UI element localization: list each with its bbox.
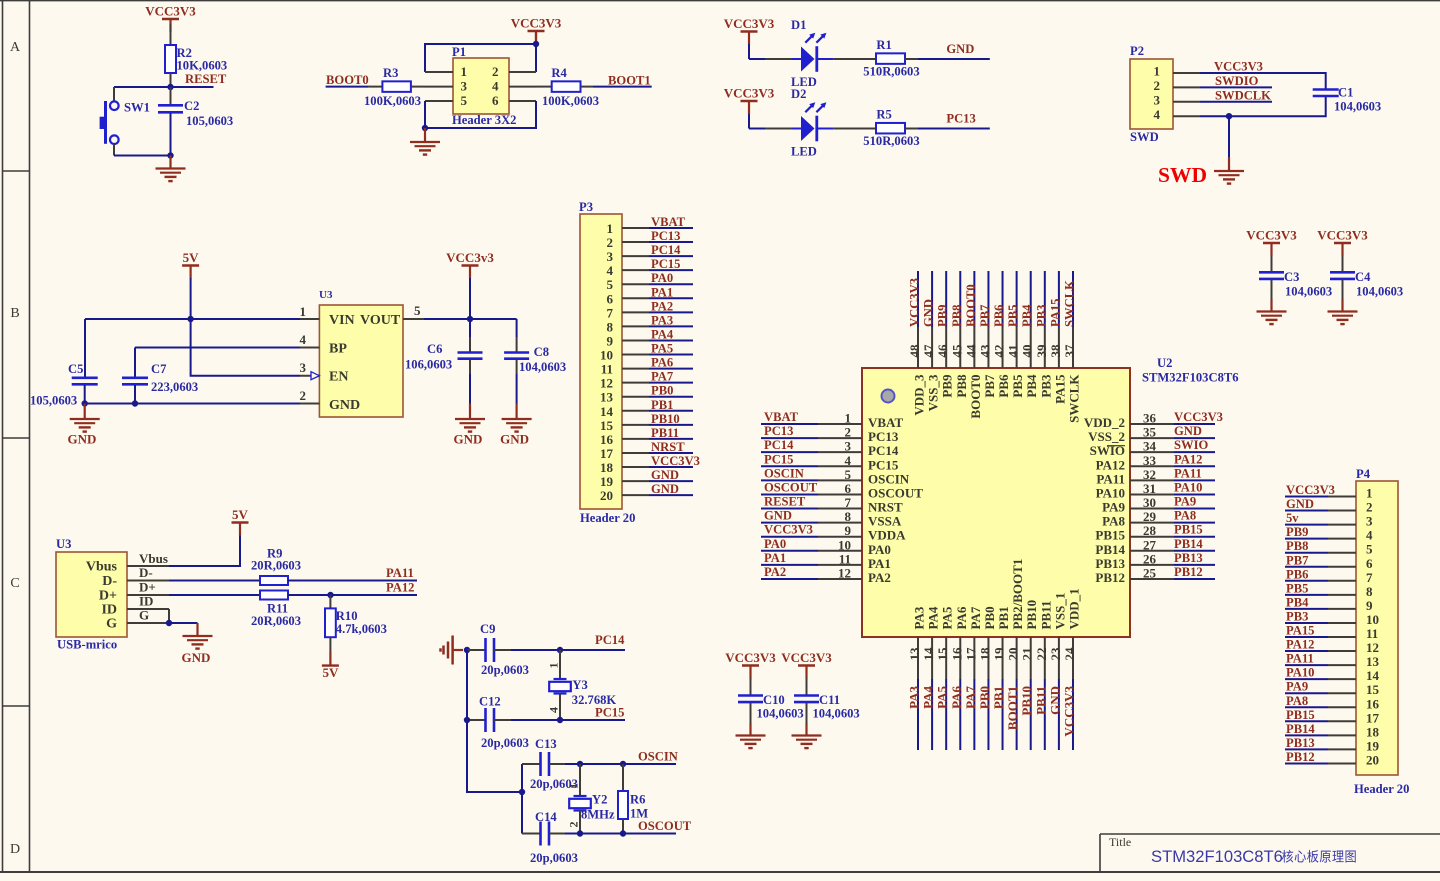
svg-text:PC13: PC13 xyxy=(946,112,975,126)
svg-text:GND: GND xyxy=(454,432,483,447)
svg-text:C3: C3 xyxy=(1284,270,1299,284)
resistor R10 xyxy=(325,595,387,637)
svg-text:20R,0603: 20R,0603 xyxy=(251,559,301,573)
svg-text:P1: P1 xyxy=(452,45,466,59)
wire P2 pin4 / C1 bottom / ground xyxy=(1200,97,1326,117)
svg-text:34: 34 xyxy=(1143,439,1157,454)
svg-text:106,0603: 106,0603 xyxy=(405,358,452,372)
svg-text:PB6: PB6 xyxy=(992,305,1006,327)
wire C13 to OSCIN xyxy=(565,763,580,765)
svg-text:C2: C2 xyxy=(184,99,199,113)
svg-text:18: 18 xyxy=(600,460,614,475)
ground (C8) xyxy=(500,404,531,447)
svg-text:OSCIN: OSCIN xyxy=(638,750,678,764)
wire VCC to P1 pins 1,2 xyxy=(425,44,536,72)
svg-text:PB9: PB9 xyxy=(1286,525,1308,539)
svg-text:48: 48 xyxy=(907,344,922,358)
svg-text:15: 15 xyxy=(1366,682,1380,697)
node junction C5/ground rail xyxy=(82,400,88,406)
svg-text:5: 5 xyxy=(414,303,421,318)
svg-text:104,0603: 104,0603 xyxy=(519,360,566,374)
svg-text:PA7: PA7 xyxy=(963,686,978,709)
node junction R6 bottom xyxy=(620,830,626,836)
resistor R5 xyxy=(863,108,919,148)
U2 pin 36 (VDD_2) wire / net VCC3V3 xyxy=(1084,410,1223,430)
svg-text:VCC3V3: VCC3V3 xyxy=(1246,228,1297,243)
wire D2 to R5 xyxy=(817,128,834,130)
U2 pin 13 (PA3) wire / net PA3 xyxy=(907,606,927,750)
wire PC15 xyxy=(560,719,625,721)
svg-text:8: 8 xyxy=(845,509,852,524)
svg-text:VSS_2: VSS_2 xyxy=(1088,429,1125,444)
svg-text:43: 43 xyxy=(977,344,992,358)
svg-text:PA3: PA3 xyxy=(907,686,922,709)
U2 pin 15 (PA5) wire / net PA5 xyxy=(935,606,955,750)
svg-text:Header 3X2: Header 3X2 xyxy=(452,113,516,127)
svg-text:BOOT0: BOOT0 xyxy=(964,284,978,327)
P4 pin 8 wire / net PB5 xyxy=(1285,581,1356,595)
U2 pin 38 (PA15) wire / net PA15 xyxy=(1048,271,1068,404)
P3 pin 6 wire / net PA1 xyxy=(622,285,693,299)
P4 pin 12 wire / net PA12 xyxy=(1285,638,1356,652)
U3 pin stubs and numbers xyxy=(300,303,425,404)
wire C12 to PC15 xyxy=(511,719,560,721)
svg-text:PA10: PA10 xyxy=(1096,485,1125,500)
svg-text:510R,0603: 510R,0603 xyxy=(863,134,919,148)
svg-text:8MHz: 8MHz xyxy=(581,808,615,822)
svg-text:PB5: PB5 xyxy=(1286,581,1308,595)
P3 pin 17 wire / net NRST xyxy=(622,440,693,454)
svg-text:SWD: SWD xyxy=(1130,130,1159,144)
node junction R6 top xyxy=(620,761,626,767)
svg-text:OSCOUT: OSCOUT xyxy=(868,485,923,500)
svg-text:PB15: PB15 xyxy=(1095,528,1125,543)
U2 pin 48 (VDD_3) wire / net VCC3V3 xyxy=(907,271,927,416)
svg-text:PB1: PB1 xyxy=(996,606,1011,629)
svg-text:VCC3V3: VCC3V3 xyxy=(1286,483,1335,497)
svg-text:VCC3V3: VCC3V3 xyxy=(145,4,196,19)
svg-text:4: 4 xyxy=(492,79,499,94)
svg-text:10: 10 xyxy=(600,348,613,363)
P3 pin 14 wire / net PB1 xyxy=(622,398,693,412)
svg-text:PB8: PB8 xyxy=(1286,539,1308,553)
wire to ground (USB) xyxy=(169,622,198,624)
svg-text:PB11: PB11 xyxy=(651,426,679,440)
svg-text:PB3: PB3 xyxy=(1034,305,1048,327)
svg-text:LED: LED xyxy=(791,145,817,159)
svg-text:39: 39 xyxy=(1034,344,1049,358)
svg-text:GND: GND xyxy=(946,42,974,56)
svg-text:Header 20: Header 20 xyxy=(1354,782,1409,796)
svg-text:32: 32 xyxy=(1143,467,1156,482)
U2 pin 8 (VSSA) wire / net GND xyxy=(761,509,902,529)
U2 pin 31 (PA10) wire / net PA10 xyxy=(1096,480,1215,500)
P3 pin 8 wire / net PA3 xyxy=(622,313,693,327)
wire R1 to GND net xyxy=(905,58,919,60)
wire C9 to PC14 xyxy=(511,649,560,651)
svg-text:R4: R4 xyxy=(551,66,567,80)
svg-text:VSS_3: VSS_3 xyxy=(926,374,941,411)
svg-text:3: 3 xyxy=(1366,514,1373,529)
capacitor C9 xyxy=(467,622,529,677)
P3 pin 11 wire / net PA6 xyxy=(622,356,693,370)
U2 pin 29 (PA8) wire / net PA8 xyxy=(1102,509,1215,529)
svg-text:PB0: PB0 xyxy=(977,686,992,709)
svg-text:5V: 5V xyxy=(232,507,249,522)
svg-text:20: 20 xyxy=(600,488,613,503)
U2 pin 5 (OSCIN) wire / net OSCIN xyxy=(761,466,910,486)
svg-text:28: 28 xyxy=(1143,523,1157,538)
svg-text:C13: C13 xyxy=(535,737,557,751)
svg-text:P4: P4 xyxy=(1356,467,1371,481)
svg-text:D-: D- xyxy=(102,574,117,589)
svg-text:PA7: PA7 xyxy=(651,370,673,384)
svg-text:PB7: PB7 xyxy=(1286,553,1308,567)
svg-text:VBAT: VBAT xyxy=(651,215,686,229)
wire D- to R9 xyxy=(169,580,260,582)
svg-text:PA2: PA2 xyxy=(868,570,891,585)
svg-text:PB10: PB10 xyxy=(1024,600,1039,630)
P4 pin 11 wire / net PA15 xyxy=(1285,624,1356,638)
P3 pin 12 wire / net PA7 xyxy=(622,370,693,384)
svg-text:24: 24 xyxy=(1062,647,1077,661)
svg-text:PB6: PB6 xyxy=(996,374,1011,398)
svg-text:13: 13 xyxy=(600,390,614,405)
capacitor C6 xyxy=(405,319,483,404)
P4 pin 20 wire / net PB12 xyxy=(1285,750,1356,764)
svg-text:9: 9 xyxy=(607,333,614,348)
svg-text:PA3: PA3 xyxy=(912,606,927,629)
svg-text:OSCOUT: OSCOUT xyxy=(638,819,692,833)
svg-text:PA6: PA6 xyxy=(949,686,964,709)
svg-text:STM32F103C8T6: STM32F103C8T6 xyxy=(1151,847,1283,866)
svg-text:104,0603: 104,0603 xyxy=(1334,100,1381,114)
capacitor C2 xyxy=(158,87,233,156)
svg-text:PB2/BOOT1: PB2/BOOT1 xyxy=(1010,559,1025,630)
wire D1 to R1 xyxy=(817,58,834,60)
wire VOUT rail xyxy=(424,318,517,320)
crystal Y2 (8MHz) xyxy=(567,764,615,834)
svg-text:3: 3 xyxy=(300,360,307,375)
svg-text:D+: D+ xyxy=(99,589,117,604)
svg-text:VBAT: VBAT xyxy=(764,410,799,424)
U2 pin 45 (PB8) wire / net PB8 xyxy=(949,271,969,398)
svg-text:6: 6 xyxy=(607,291,614,306)
svg-text:47: 47 xyxy=(921,344,936,358)
ground (reset) xyxy=(156,156,186,182)
svg-text:13: 13 xyxy=(1366,654,1380,669)
P3 pin 18 wire / net VCC3V3 xyxy=(622,454,700,468)
svg-text:U3: U3 xyxy=(319,289,333,301)
P3 pin 2 wire / net PC13 xyxy=(622,229,693,243)
P3 pin 3 wire / net PC14 xyxy=(622,243,693,257)
svg-text:D-: D- xyxy=(139,565,153,580)
earth ground (crystal) xyxy=(441,636,464,665)
capacitor C13 xyxy=(522,737,578,791)
P3 pin 1 wire / net VBAT xyxy=(622,215,693,229)
wire BP xyxy=(135,347,300,349)
ground (C3) xyxy=(1257,312,1287,325)
svg-text:G: G xyxy=(106,617,117,632)
P4 pin 4 wire / net PB9 xyxy=(1285,525,1356,539)
P4 pin 2 wire / net GND xyxy=(1285,497,1356,511)
svg-text:SWDIO: SWDIO xyxy=(1215,74,1259,88)
svg-text:GND: GND xyxy=(1286,497,1314,511)
svg-text:P3: P3 xyxy=(579,200,593,214)
svg-text:11: 11 xyxy=(601,362,613,377)
U2 pin 43 (PB7) wire / net PB7 xyxy=(977,271,997,398)
svg-text:PC14: PC14 xyxy=(764,438,794,452)
svg-text:PC15: PC15 xyxy=(595,705,624,719)
resistor R11 xyxy=(251,591,301,629)
svg-text:19: 19 xyxy=(600,474,614,489)
svg-text:GND: GND xyxy=(182,650,211,665)
svg-text:27: 27 xyxy=(1143,537,1157,552)
svg-text:23: 23 xyxy=(1048,647,1063,661)
svg-text:Vbus: Vbus xyxy=(86,560,118,575)
svg-text:45: 45 xyxy=(949,344,964,358)
svg-text:PB9: PB9 xyxy=(940,374,955,398)
U2 pin 14 (PA4) wire / net PA4 xyxy=(921,606,941,750)
svg-text:PC14: PC14 xyxy=(868,443,899,458)
svg-text:6: 6 xyxy=(492,93,499,108)
U2 pin 17 (PA7) wire / net PA7 xyxy=(963,606,983,750)
svg-text:7: 7 xyxy=(607,305,614,320)
U2 pin 42 (PB6) wire / net PB6 xyxy=(992,271,1012,398)
svg-text:PA2: PA2 xyxy=(651,299,673,313)
U2 pin 26 (PB13) wire / net PB13 xyxy=(1095,551,1215,571)
svg-text:VCC3V3: VCC3V3 xyxy=(651,454,700,468)
svg-text:18: 18 xyxy=(977,647,992,661)
svg-text:5: 5 xyxy=(607,277,614,292)
svg-text:PA9: PA9 xyxy=(1174,495,1196,509)
svg-text:223,0603: 223,0603 xyxy=(151,380,198,394)
svg-text:19: 19 xyxy=(992,647,1007,661)
svg-text:EN: EN xyxy=(329,370,348,385)
power VCC3V3 (C10) xyxy=(725,650,776,695)
wire R4 to P1 pin 4 xyxy=(536,86,552,88)
P3 pin 7 wire / net PA2 xyxy=(622,299,693,313)
svg-text:PA0: PA0 xyxy=(764,537,786,551)
svg-text:D+: D+ xyxy=(139,580,156,595)
svg-text:D1: D1 xyxy=(791,18,806,32)
capacitor C4 xyxy=(1330,270,1403,312)
svg-text:104,0603: 104,0603 xyxy=(1356,285,1403,299)
svg-text:U3: U3 xyxy=(56,537,71,551)
capacitor C10 xyxy=(738,693,804,736)
wire switch bottom to ground rail xyxy=(113,144,115,156)
svg-text:PC14: PC14 xyxy=(651,243,681,257)
svg-text:Header 20: Header 20 xyxy=(580,511,635,525)
svg-text:2: 2 xyxy=(492,64,499,79)
svg-text:PB4: PB4 xyxy=(1020,304,1034,327)
svg-text:PB1: PB1 xyxy=(651,398,673,412)
U2 pin 34 (SWIO) wire / net SWIO xyxy=(1090,438,1215,458)
svg-text:12: 12 xyxy=(1366,640,1379,655)
svg-text:20p,0603: 20p,0603 xyxy=(481,663,529,677)
power VCC3V3 (reset pull-up) xyxy=(145,4,196,46)
svg-text:104,0603: 104,0603 xyxy=(1285,285,1332,299)
wire RESET net xyxy=(114,86,214,88)
wire VCC to D2 xyxy=(749,128,765,130)
node junction VOUT xyxy=(467,316,473,322)
svg-text:D: D xyxy=(10,842,20,857)
svg-text:GND: GND xyxy=(764,509,792,523)
U2 pin 7 (NRST) wire / net RESET xyxy=(761,495,903,515)
LED D2 xyxy=(791,87,826,159)
svg-text:11: 11 xyxy=(1366,626,1378,641)
wire C14 to OSCOUT xyxy=(565,833,580,835)
svg-text:USB-mrico: USB-mrico xyxy=(57,638,117,652)
svg-text:PA8: PA8 xyxy=(1102,514,1125,529)
svg-text:25: 25 xyxy=(1143,565,1157,580)
svg-text:C6: C6 xyxy=(427,342,442,356)
svg-text:VSS_1: VSS_1 xyxy=(1052,593,1067,630)
svg-text:41: 41 xyxy=(1006,345,1021,358)
node junction P1 ground xyxy=(422,125,428,131)
svg-text:5V: 5V xyxy=(183,250,200,265)
svg-text:3: 3 xyxy=(1154,92,1161,107)
svg-text:510R,0603: 510R,0603 xyxy=(863,64,919,78)
P4 pin 17 wire / net PB15 xyxy=(1285,708,1356,722)
svg-text:2: 2 xyxy=(607,235,614,250)
U2 pin 11 (PA1) wire / net PA1 xyxy=(761,551,891,571)
svg-text:PB4: PB4 xyxy=(1024,374,1039,398)
wire down to ground (SWD) xyxy=(1228,116,1230,157)
wire Y2 bottom to R6 bottom xyxy=(580,833,623,835)
svg-text:36: 36 xyxy=(1143,411,1157,426)
svg-text:15: 15 xyxy=(600,418,614,433)
svg-text:13: 13 xyxy=(907,647,922,661)
svg-text:37: 37 xyxy=(1062,344,1077,358)
P1 pin stubs xyxy=(425,72,536,101)
regulator U3 (LDO) xyxy=(319,289,403,417)
svg-text:GND: GND xyxy=(500,432,529,447)
svg-text:4: 4 xyxy=(547,707,561,713)
svg-text:PA9: PA9 xyxy=(1286,680,1308,694)
svg-text:12: 12 xyxy=(838,565,851,580)
svg-text:PC15: PC15 xyxy=(868,457,899,472)
ground (boot header) xyxy=(410,128,440,155)
svg-text:PA10: PA10 xyxy=(1286,666,1314,680)
U2 pin 12 (PA2) wire / net PA2 xyxy=(761,565,891,585)
svg-text:PB1: PB1 xyxy=(991,686,1006,709)
U2 pin 46 (PB9) wire / net PB9 xyxy=(935,271,955,398)
ground (C6) xyxy=(454,404,485,447)
svg-text:OSCIN: OSCIN xyxy=(868,471,910,486)
svg-text:20p,0603: 20p,0603 xyxy=(530,851,578,865)
svg-text:D2: D2 xyxy=(791,87,806,101)
svg-text:100K,0603: 100K,0603 xyxy=(542,94,599,108)
svg-text:OSCIN: OSCIN xyxy=(764,466,804,480)
capacitor C11 xyxy=(794,693,860,736)
svg-text:PA5: PA5 xyxy=(651,342,673,356)
resistor R4 xyxy=(542,66,599,108)
svg-text:RESET: RESET xyxy=(185,72,227,86)
wire R9 to PA11 xyxy=(288,580,417,582)
svg-text:PB3: PB3 xyxy=(1286,609,1308,623)
svg-text:1: 1 xyxy=(1154,64,1161,79)
svg-text:C: C xyxy=(10,576,19,591)
P3 pin 16 wire / net PB11 xyxy=(622,426,693,440)
svg-text:VCC3V3: VCC3V3 xyxy=(724,16,775,31)
svg-text:SWD: SWD xyxy=(1158,163,1207,187)
power VCC3V3 (C11) xyxy=(781,650,832,695)
svg-text:PA1: PA1 xyxy=(868,556,891,571)
wire R5 to PC13 net xyxy=(905,128,919,130)
power VCC3V3 (boot header) xyxy=(511,16,562,45)
svg-text:PB13: PB13 xyxy=(1286,736,1315,750)
svg-text:BOOT0: BOOT0 xyxy=(326,73,369,87)
svg-text:38: 38 xyxy=(1048,344,1063,358)
svg-text:GND: GND xyxy=(651,468,679,482)
svg-text:PA7: PA7 xyxy=(968,606,983,629)
svg-text:22: 22 xyxy=(1034,648,1049,661)
svg-text:PB7: PB7 xyxy=(982,374,997,398)
wire R2 to RESET node xyxy=(170,73,172,87)
svg-text:17: 17 xyxy=(1366,710,1380,725)
connector U3 (USB-micro) xyxy=(56,537,127,652)
svg-text:PA1: PA1 xyxy=(651,285,673,299)
svg-text:PA15: PA15 xyxy=(1052,374,1067,404)
U2 pin 1 (VBAT) wire / net VBAT xyxy=(761,410,903,430)
wire D+ to R11 xyxy=(169,594,260,596)
wire ID to G xyxy=(168,609,170,623)
svg-text:11: 11 xyxy=(839,551,851,566)
svg-text:20R,0603: 20R,0603 xyxy=(251,614,301,628)
svg-text:PA4: PA4 xyxy=(926,606,941,629)
node junction Y2 bottom xyxy=(577,830,583,836)
P4 pin 14 wire / net PA10 xyxy=(1285,666,1356,680)
svg-text:C14: C14 xyxy=(535,810,557,824)
svg-text:44: 44 xyxy=(963,344,978,358)
svg-text:15: 15 xyxy=(935,647,950,661)
svg-text:VBAT: VBAT xyxy=(868,415,903,430)
svg-text:5: 5 xyxy=(1366,542,1373,557)
P3 pin 20 wire / net GND xyxy=(622,482,693,496)
svg-text:PB11: PB11 xyxy=(1038,601,1053,630)
power VCC3V3 (C3) xyxy=(1246,228,1297,273)
header P3 (Header 20) xyxy=(579,200,635,525)
svg-text:A: A xyxy=(10,40,21,55)
svg-text:VCC3V3: VCC3V3 xyxy=(764,523,813,537)
header P2 (SWD) xyxy=(1130,44,1173,144)
svg-text:R3: R3 xyxy=(383,66,398,80)
svg-text:PC15: PC15 xyxy=(764,452,793,466)
svg-text:35: 35 xyxy=(1143,425,1157,440)
svg-text:PB6: PB6 xyxy=(1286,567,1308,581)
node junction C2/SW1/ground xyxy=(167,152,173,158)
switch SW1 xyxy=(100,101,150,145)
svg-text:5v: 5v xyxy=(1286,511,1299,525)
svg-text:PB14: PB14 xyxy=(1286,722,1315,736)
U2 pin 35 (VSS_2) wire / net GND xyxy=(1088,424,1215,444)
node junction mid rail xyxy=(519,789,525,795)
svg-text:PA10: PA10 xyxy=(1174,480,1202,494)
svg-text:4: 4 xyxy=(607,263,614,278)
svg-text:105,0603: 105,0603 xyxy=(30,394,77,408)
svg-text:31: 31 xyxy=(1143,481,1156,496)
svg-text:C9: C9 xyxy=(480,622,495,636)
U2 pin 37 (SWCLK) wire / net SWCLK xyxy=(1062,271,1082,423)
svg-text:SWIO: SWIO xyxy=(1174,438,1208,452)
svg-text:PB0: PB0 xyxy=(982,606,997,629)
P4 pin 1 wire / net VCC3V3 xyxy=(1285,483,1356,497)
svg-text:PB11: PB11 xyxy=(1033,686,1048,715)
U2 pin 4 (PC15) wire / net PC15 xyxy=(761,452,899,472)
U2 pin 39 (PB3) wire / net PB3 xyxy=(1034,271,1054,398)
wire R11 to PA12 xyxy=(288,594,417,596)
